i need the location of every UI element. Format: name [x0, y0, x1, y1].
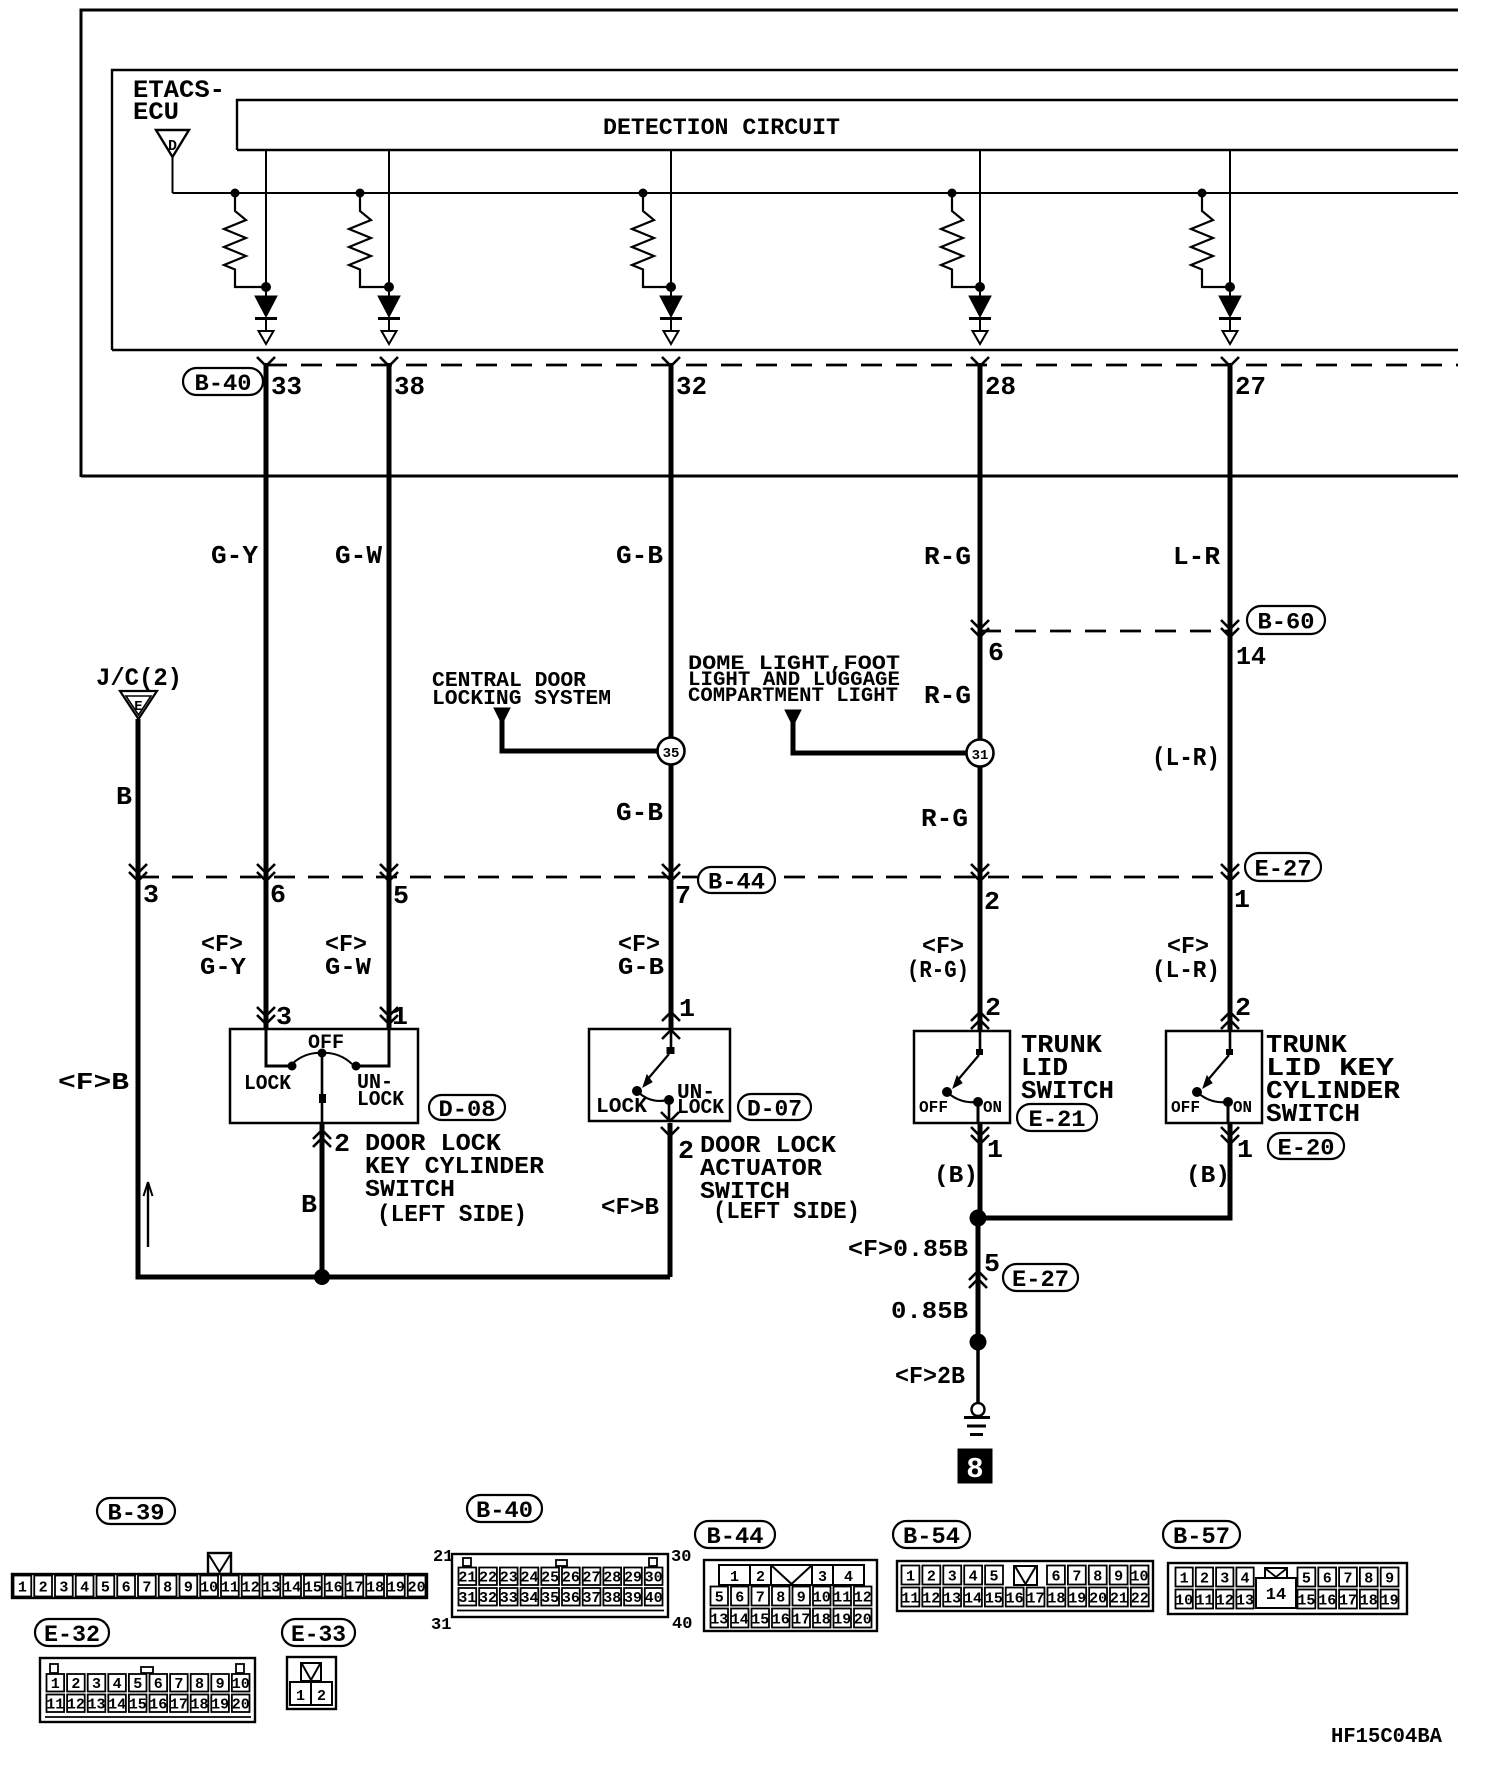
switch D-08 pin3 internal wire	[266, 1029, 288, 1066]
svg-text:11: 11	[1195, 1592, 1213, 1609]
B-44 crossing arrow on wire x=266	[257, 864, 275, 873]
svg-text:2: 2	[1235, 993, 1251, 1023]
svg-text:ECU: ECU	[133, 98, 179, 127]
svg-text:5: 5	[133, 1676, 142, 1693]
ground bus wire E-21/E-20	[978, 1216, 1230, 1219]
svg-text:(B): (B)	[1186, 1163, 1230, 1190]
svg-text:9: 9	[216, 1676, 225, 1693]
central door locking system arrow	[494, 708, 510, 724]
svg-text:22: 22	[1131, 1590, 1149, 1607]
svg-text:7: 7	[1343, 1570, 1352, 1587]
svg-text:7: 7	[756, 1589, 765, 1606]
svg-text:15: 15	[304, 1579, 322, 1596]
svg-text:B-60: B-60	[1258, 609, 1315, 635]
svg-text:12: 12	[922, 1590, 940, 1607]
wire G-W pin38	[387, 363, 392, 1029]
wire R-G pin28	[978, 363, 983, 1031]
svg-text:16: 16	[772, 1611, 790, 1628]
current direction arrow (J/C wire)	[147, 1184, 149, 1247]
svg-text:(R-G): (R-G)	[907, 958, 969, 985]
E-27 crossing arrow on L-R wire	[1221, 864, 1239, 873]
svg-text:33: 33	[500, 1590, 518, 1607]
svg-text:R-G: R-G	[921, 804, 968, 834]
svg-text:HF15C04BA: HF15C04BA	[1331, 1726, 1442, 1749]
svg-text:6: 6	[154, 1676, 163, 1693]
switch D-08 pin1 internal wire	[360, 1029, 389, 1066]
svg-text:20: 20	[232, 1697, 250, 1714]
svg-text:(L-R): (L-R)	[1152, 743, 1220, 773]
svg-text:E-33: E-33	[291, 1622, 346, 1648]
switch E-21 contact travel arc	[947, 1092, 978, 1102]
svg-text:27: 27	[583, 1570, 601, 1587]
svg-text:4: 4	[969, 1568, 978, 1585]
svg-text:ON: ON	[1233, 1099, 1252, 1118]
svg-text:17: 17	[1339, 1592, 1357, 1609]
svg-text:6: 6	[735, 1589, 744, 1606]
switch D-07 internal wire from pin 1	[670, 1029, 673, 1048]
svg-text:20: 20	[854, 1611, 872, 1628]
switch E-21 ON contact	[973, 1097, 983, 1107]
ground wire lower	[976, 1342, 980, 1403]
svg-text:L-R: L-R	[1173, 542, 1220, 572]
svg-text:G-B: G-B	[618, 955, 664, 982]
svg-text:2: 2	[985, 993, 1001, 1023]
ground bus wire (J/C to D-07)	[138, 1274, 670, 1277]
svg-text:13: 13	[87, 1697, 105, 1714]
svg-text:(LEFT SIDE): (LEFT SIDE)	[377, 1202, 527, 1229]
svg-text:27: 27	[1235, 372, 1266, 402]
svg-text:9: 9	[1114, 1568, 1123, 1585]
svg-text:16: 16	[1318, 1592, 1336, 1609]
svg-text:8: 8	[195, 1676, 204, 1693]
svg-text:1: 1	[1234, 885, 1250, 915]
svg-text:17: 17	[792, 1611, 810, 1628]
svg-text:11: 11	[46, 1697, 64, 1714]
svg-text:3: 3	[818, 1569, 827, 1586]
svg-text:31: 31	[972, 748, 989, 764]
svg-text:24: 24	[520, 1570, 538, 1587]
switch D-08 common wire	[321, 1053, 324, 1123]
svg-text:35: 35	[663, 746, 680, 762]
svg-text:B-44: B-44	[708, 869, 765, 895]
connector label B-54	[893, 1521, 970, 1548]
svg-text:2: 2	[984, 887, 1000, 917]
svg-text:8: 8	[966, 1453, 983, 1486]
svg-text:4: 4	[80, 1579, 89, 1596]
svg-text:5: 5	[715, 1589, 724, 1606]
connector label E-21	[1017, 1104, 1097, 1131]
svg-text:25: 25	[541, 1570, 559, 1587]
svg-text:15: 15	[985, 1590, 1003, 1607]
svg-text:23: 23	[500, 1570, 518, 1587]
svg-text:G-W: G-W	[335, 541, 382, 571]
wire from D-07 pin 2 to ground bus	[668, 1123, 673, 1277]
svg-text:6: 6	[122, 1579, 131, 1596]
B-44 crossing arrow on wire x=671	[662, 864, 680, 873]
svg-text:28: 28	[985, 372, 1016, 402]
svg-text:40: 40	[645, 1590, 663, 1607]
connector label B-40 (bottom)	[467, 1495, 542, 1522]
svg-text:18: 18	[1047, 1590, 1065, 1607]
switch D-07 movable contact arm	[647, 1054, 669, 1080]
svg-text:E: E	[134, 699, 142, 715]
svg-text:3: 3	[276, 1002, 292, 1032]
connector label E-27 (mid)	[1245, 853, 1321, 881]
switch D-07 pin 2 crossing arrow	[661, 1112, 679, 1121]
svg-text:1: 1	[987, 1135, 1003, 1165]
resistor R3	[639, 189, 648, 198]
feed bus wire	[173, 192, 1459, 194]
svg-text:38: 38	[603, 1590, 621, 1607]
B-60 crossing arrow on L-R wire	[1221, 620, 1239, 629]
svg-text:39: 39	[624, 1590, 642, 1607]
connector label B-40 (top)	[183, 368, 263, 395]
svg-text:29: 29	[624, 1570, 642, 1587]
svg-text:ON: ON	[983, 1099, 1002, 1118]
wire from E-21 pin 1 to ground	[978, 1123, 983, 1220]
svg-text:32: 32	[676, 372, 707, 402]
svg-text:2: 2	[317, 1688, 326, 1705]
svg-text:7: 7	[675, 881, 691, 911]
switch E-21 internal wire from pin 2	[979, 1031, 982, 1050]
wire from detection circuit to diode D3	[670, 150, 672, 296]
svg-text:R-G: R-G	[924, 681, 971, 711]
svg-text:B-54: B-54	[903, 1524, 960, 1550]
connector B-40 pinout	[452, 1554, 668, 1617]
svg-text:14: 14	[964, 1590, 982, 1607]
svg-text:(L-R): (L-R)	[1152, 958, 1220, 985]
connector label B-57	[1163, 1521, 1240, 1548]
svg-text:LOCK: LOCK	[596, 1096, 647, 1119]
wire G-Y pin33	[264, 363, 269, 1029]
svg-text:10: 10	[200, 1579, 218, 1596]
svg-text:16: 16	[149, 1697, 167, 1714]
connector B-44/E-27 dashed line	[138, 876, 1230, 879]
svg-text:8: 8	[163, 1579, 172, 1596]
svg-text:B: B	[301, 1190, 317, 1220]
connector label D-07	[738, 1094, 811, 1120]
svg-text:6: 6	[1051, 1568, 1060, 1585]
svg-text:5: 5	[101, 1579, 110, 1596]
svg-text:0.85B: 0.85B	[891, 1299, 968, 1326]
svg-text:6: 6	[1323, 1570, 1332, 1587]
switch E-20 ON contact	[1223, 1097, 1233, 1107]
svg-text:SWITCH: SWITCH	[365, 1177, 455, 1204]
svg-text:E-20: E-20	[1278, 1135, 1335, 1161]
connector B-57 pinout	[1168, 1563, 1407, 1614]
svg-text:D-08: D-08	[439, 1097, 496, 1123]
E-27 ground crossing arrow	[969, 1271, 987, 1280]
svg-text:2: 2	[334, 1129, 350, 1159]
diode D1 (cathode down)	[255, 296, 277, 317]
diode D5 (cathode down)	[1219, 296, 1241, 317]
svg-text:B-57: B-57	[1173, 1524, 1230, 1550]
svg-text:LOCK: LOCK	[244, 1073, 291, 1096]
ground symbol	[972, 1403, 985, 1416]
svg-text:7: 7	[142, 1579, 151, 1596]
svg-text:LOCK: LOCK	[677, 1097, 724, 1120]
svg-text:6: 6	[988, 638, 1004, 668]
svg-text:19: 19	[1068, 1590, 1086, 1607]
svg-text:DETECTION CIRCUIT: DETECTION CIRCUIT	[603, 115, 840, 141]
resistor R2	[356, 189, 365, 198]
connector B-40 pin 38 crossing arrow	[380, 357, 398, 366]
svg-text:B-40: B-40	[195, 371, 252, 397]
svg-text:4: 4	[844, 1569, 853, 1586]
svg-text:1: 1	[296, 1688, 305, 1705]
svg-text:(B): (B)	[934, 1163, 978, 1190]
svg-text:E-32: E-32	[44, 1622, 100, 1648]
switch E-21 movable contact arm	[957, 1055, 979, 1081]
wire G-B pin32	[669, 363, 674, 1029]
svg-text:B: B	[116, 782, 132, 812]
svg-text:COMPARTMENT LIGHT: COMPARTMENT LIGHT	[688, 685, 898, 708]
connector B-40 pin 32 crossing arrow	[662, 357, 680, 366]
switch E-20 box	[1166, 1031, 1262, 1123]
svg-text:8: 8	[1364, 1570, 1373, 1587]
wire from D-08 pin 2 to ground bus	[320, 1123, 325, 1277]
B-60 crossing arrow on R-G wire	[971, 620, 989, 629]
svg-text:3: 3	[948, 1568, 957, 1585]
switch E-20 movable contact arm	[1207, 1055, 1229, 1081]
ETACS-ECU outer enclosure border	[81, 10, 1458, 477]
detection circuit block	[237, 100, 1458, 150]
connector label E-32	[35, 1619, 109, 1646]
svg-text:9: 9	[797, 1589, 806, 1606]
ground wire down from junction	[976, 1218, 981, 1342]
connector B-54 pinout	[897, 1561, 1153, 1611]
svg-text:15: 15	[751, 1611, 769, 1628]
svg-text:3: 3	[1220, 1570, 1229, 1587]
svg-text:E-27: E-27	[1012, 1267, 1069, 1293]
svg-text:40: 40	[672, 1615, 692, 1634]
connector label E-27 (ground)	[1003, 1264, 1078, 1291]
switch E-21 pin 2 crossing arrow	[971, 1012, 989, 1021]
switch E-21 pin 1 crossing arrow	[971, 1127, 989, 1136]
wire from detection circuit to diode D2	[388, 150, 390, 296]
svg-text:9: 9	[1385, 1570, 1394, 1587]
svg-text:LOCKING SYSTEM: LOCKING SYSTEM	[432, 688, 611, 711]
connector label D-08	[429, 1095, 505, 1120]
resistor R4	[948, 189, 957, 198]
svg-text:G-Y: G-Y	[211, 541, 258, 571]
svg-text:17: 17	[170, 1697, 188, 1714]
svg-text:1: 1	[906, 1568, 915, 1585]
svg-text:OFF: OFF	[1171, 1099, 1200, 1118]
switch D-08 pin 1 crossing arrow	[380, 1007, 398, 1016]
svg-text:D: D	[168, 138, 177, 155]
wire from detection circuit to diode D4	[979, 150, 981, 296]
switch E-20 pin 2 crossing arrow	[1221, 1012, 1239, 1021]
svg-text:<F>B: <F>B	[58, 1070, 129, 1097]
junction dot on ground bus	[314, 1269, 330, 1285]
svg-text:19: 19	[211, 1697, 229, 1714]
junction node 35	[658, 738, 685, 765]
svg-text:38: 38	[394, 372, 425, 402]
svg-text:G-B: G-B	[616, 798, 663, 828]
switch E-20 contact travel arc	[1197, 1092, 1228, 1102]
svg-text:10: 10	[1131, 1568, 1149, 1585]
svg-text:B-39: B-39	[108, 1500, 165, 1526]
wire from detection circuit to diode D1	[265, 150, 267, 296]
svg-text:19: 19	[833, 1611, 851, 1628]
E-27 crossing arrow on R-G wire	[971, 864, 989, 873]
svg-text:G-Y: G-Y	[200, 955, 247, 982]
svg-text:R-G: R-G	[924, 542, 971, 572]
svg-text:SWITCH: SWITCH	[1021, 1076, 1114, 1106]
switch E-21 box	[914, 1031, 1010, 1123]
svg-text:31: 31	[458, 1590, 476, 1607]
svg-text:19: 19	[387, 1579, 405, 1596]
svg-text:G-W: G-W	[325, 955, 372, 982]
connector label B-44 (mid)	[698, 867, 775, 893]
svg-text:17: 17	[345, 1579, 363, 1596]
svg-text:11: 11	[901, 1590, 919, 1607]
svg-text:J/C(2): J/C(2)	[96, 664, 182, 693]
svg-text:<F>B: <F>B	[601, 1195, 659, 1222]
svg-text:30: 30	[645, 1570, 663, 1587]
svg-text:2: 2	[756, 1569, 765, 1586]
svg-text:21: 21	[458, 1570, 476, 1587]
svg-text:11: 11	[221, 1579, 239, 1596]
switch D-08 movable contact	[318, 1049, 327, 1058]
svg-text:<F>: <F>	[922, 934, 964, 961]
connector label E-20	[1268, 1133, 1344, 1159]
svg-text:1: 1	[51, 1676, 60, 1693]
svg-text:36: 36	[562, 1590, 580, 1607]
switch D-07 contact travel arc	[637, 1091, 668, 1101]
svg-text:34: 34	[520, 1590, 538, 1607]
B-44 crossing arrow on wire x=389	[380, 864, 398, 873]
svg-text:<F>2B: <F>2B	[895, 1364, 965, 1391]
connector B-40 dashed line	[266, 364, 1458, 367]
connector B-60 dashed line	[980, 630, 1230, 633]
svg-text:1: 1	[1180, 1570, 1189, 1587]
diode D2 (cathode down)	[378, 296, 400, 317]
svg-text:31: 31	[431, 1616, 451, 1635]
svg-text:2: 2	[678, 1136, 694, 1166]
switch D-08 box	[230, 1029, 418, 1123]
svg-text:12: 12	[1216, 1592, 1234, 1609]
svg-text:20: 20	[1089, 1590, 1107, 1607]
svg-text:4: 4	[113, 1676, 122, 1693]
svg-text:13: 13	[943, 1590, 961, 1607]
switch D-07 pin 1 crossing arrow	[662, 1012, 680, 1021]
svg-text:22: 22	[479, 1570, 497, 1587]
ETACS-ECU inner box	[112, 70, 1458, 350]
junction triangle D (ETACS internal node)	[156, 130, 189, 157]
svg-text:7: 7	[174, 1676, 183, 1693]
svg-text:1: 1	[1237, 1135, 1253, 1165]
svg-text:B-40: B-40	[476, 1498, 533, 1524]
svg-text:18: 18	[366, 1579, 384, 1596]
svg-text:13: 13	[1236, 1592, 1254, 1609]
svg-text:5: 5	[984, 1249, 1000, 1279]
connector B-39 pinout	[12, 1574, 427, 1598]
switch E-20 pin 1 crossing arrow	[1221, 1127, 1239, 1136]
svg-text:7: 7	[1072, 1568, 1081, 1585]
wire B from J/C(2)	[136, 719, 141, 1277]
svg-text:12: 12	[854, 1589, 872, 1606]
svg-text:3: 3	[59, 1579, 68, 1596]
connector label E-33	[282, 1619, 355, 1646]
B-44 crossing arrow on wire x=138	[129, 864, 147, 873]
diode D3 (cathode down)	[660, 296, 682, 317]
svg-text:SWITCH: SWITCH	[1266, 1099, 1360, 1129]
svg-text:10: 10	[1175, 1592, 1193, 1609]
svg-text:4: 4	[1241, 1570, 1250, 1587]
connector E-33 pinout	[287, 1657, 336, 1709]
diode D4 (cathode down)	[969, 296, 991, 317]
svg-text:LOCK: LOCK	[357, 1089, 404, 1112]
svg-text:5: 5	[990, 1568, 999, 1585]
svg-text:2: 2	[927, 1568, 936, 1585]
svg-text:11: 11	[833, 1589, 851, 1606]
svg-text:26: 26	[562, 1570, 580, 1587]
svg-text:15: 15	[129, 1697, 147, 1714]
svg-text:13: 13	[710, 1611, 728, 1628]
svg-text:<F>0.85B: <F>0.85B	[848, 1237, 968, 1264]
svg-text:20: 20	[408, 1579, 426, 1596]
switch D-08 pin 2 crossing arrow	[313, 1130, 331, 1139]
svg-text:6: 6	[270, 880, 286, 910]
svg-text:(LEFT SIDE): (LEFT SIDE)	[713, 1199, 860, 1226]
wire from triangle D to feed bus	[172, 157, 174, 193]
svg-text:14: 14	[108, 1697, 126, 1714]
resistor R1	[231, 189, 240, 198]
svg-text:37: 37	[583, 1590, 601, 1607]
svg-text:3: 3	[143, 880, 159, 910]
resistor R5	[1198, 189, 1207, 198]
wire from E-20 pin 1 to ground bus	[1228, 1123, 1233, 1220]
svg-text:12: 12	[242, 1579, 260, 1596]
svg-text:5: 5	[1302, 1570, 1311, 1587]
connector E-32 pinout	[40, 1658, 255, 1722]
svg-text:9: 9	[184, 1579, 193, 1596]
svg-text:3: 3	[92, 1676, 101, 1693]
switch D-07 box	[589, 1029, 730, 1121]
svg-text:10: 10	[813, 1589, 831, 1606]
svg-text:2: 2	[71, 1676, 80, 1693]
junction dot (2B splice)	[970, 1334, 987, 1351]
svg-text:1: 1	[679, 994, 695, 1024]
svg-text:8: 8	[1093, 1568, 1102, 1585]
ground reference 8	[958, 1449, 992, 1483]
svg-text:28: 28	[603, 1570, 621, 1587]
svg-text:18: 18	[1360, 1592, 1378, 1609]
dome light branch arrow	[785, 710, 801, 726]
svg-text:21: 21	[433, 1548, 453, 1567]
svg-text:1: 1	[392, 1002, 408, 1032]
connector label B-60	[1247, 606, 1325, 634]
svg-text:12: 12	[67, 1697, 85, 1714]
svg-text:E-27: E-27	[1255, 856, 1312, 882]
junction node 31	[967, 740, 994, 767]
svg-text:13: 13	[262, 1579, 280, 1596]
connector label B-44 (bottom)	[695, 1521, 775, 1548]
svg-text:14: 14	[1236, 642, 1266, 672]
switch D-08 pin 3 crossing arrow	[257, 1007, 275, 1016]
svg-text:2: 2	[39, 1579, 48, 1596]
svg-text:14: 14	[731, 1611, 749, 1628]
junction dot E-21/E-20 bus	[970, 1210, 987, 1227]
svg-text:<F>: <F>	[1167, 934, 1209, 961]
svg-text:18: 18	[813, 1611, 831, 1628]
svg-text:E-21: E-21	[1029, 1107, 1086, 1133]
svg-text:14: 14	[283, 1579, 301, 1596]
svg-text:17: 17	[1027, 1590, 1045, 1607]
svg-text:16: 16	[1006, 1590, 1024, 1607]
